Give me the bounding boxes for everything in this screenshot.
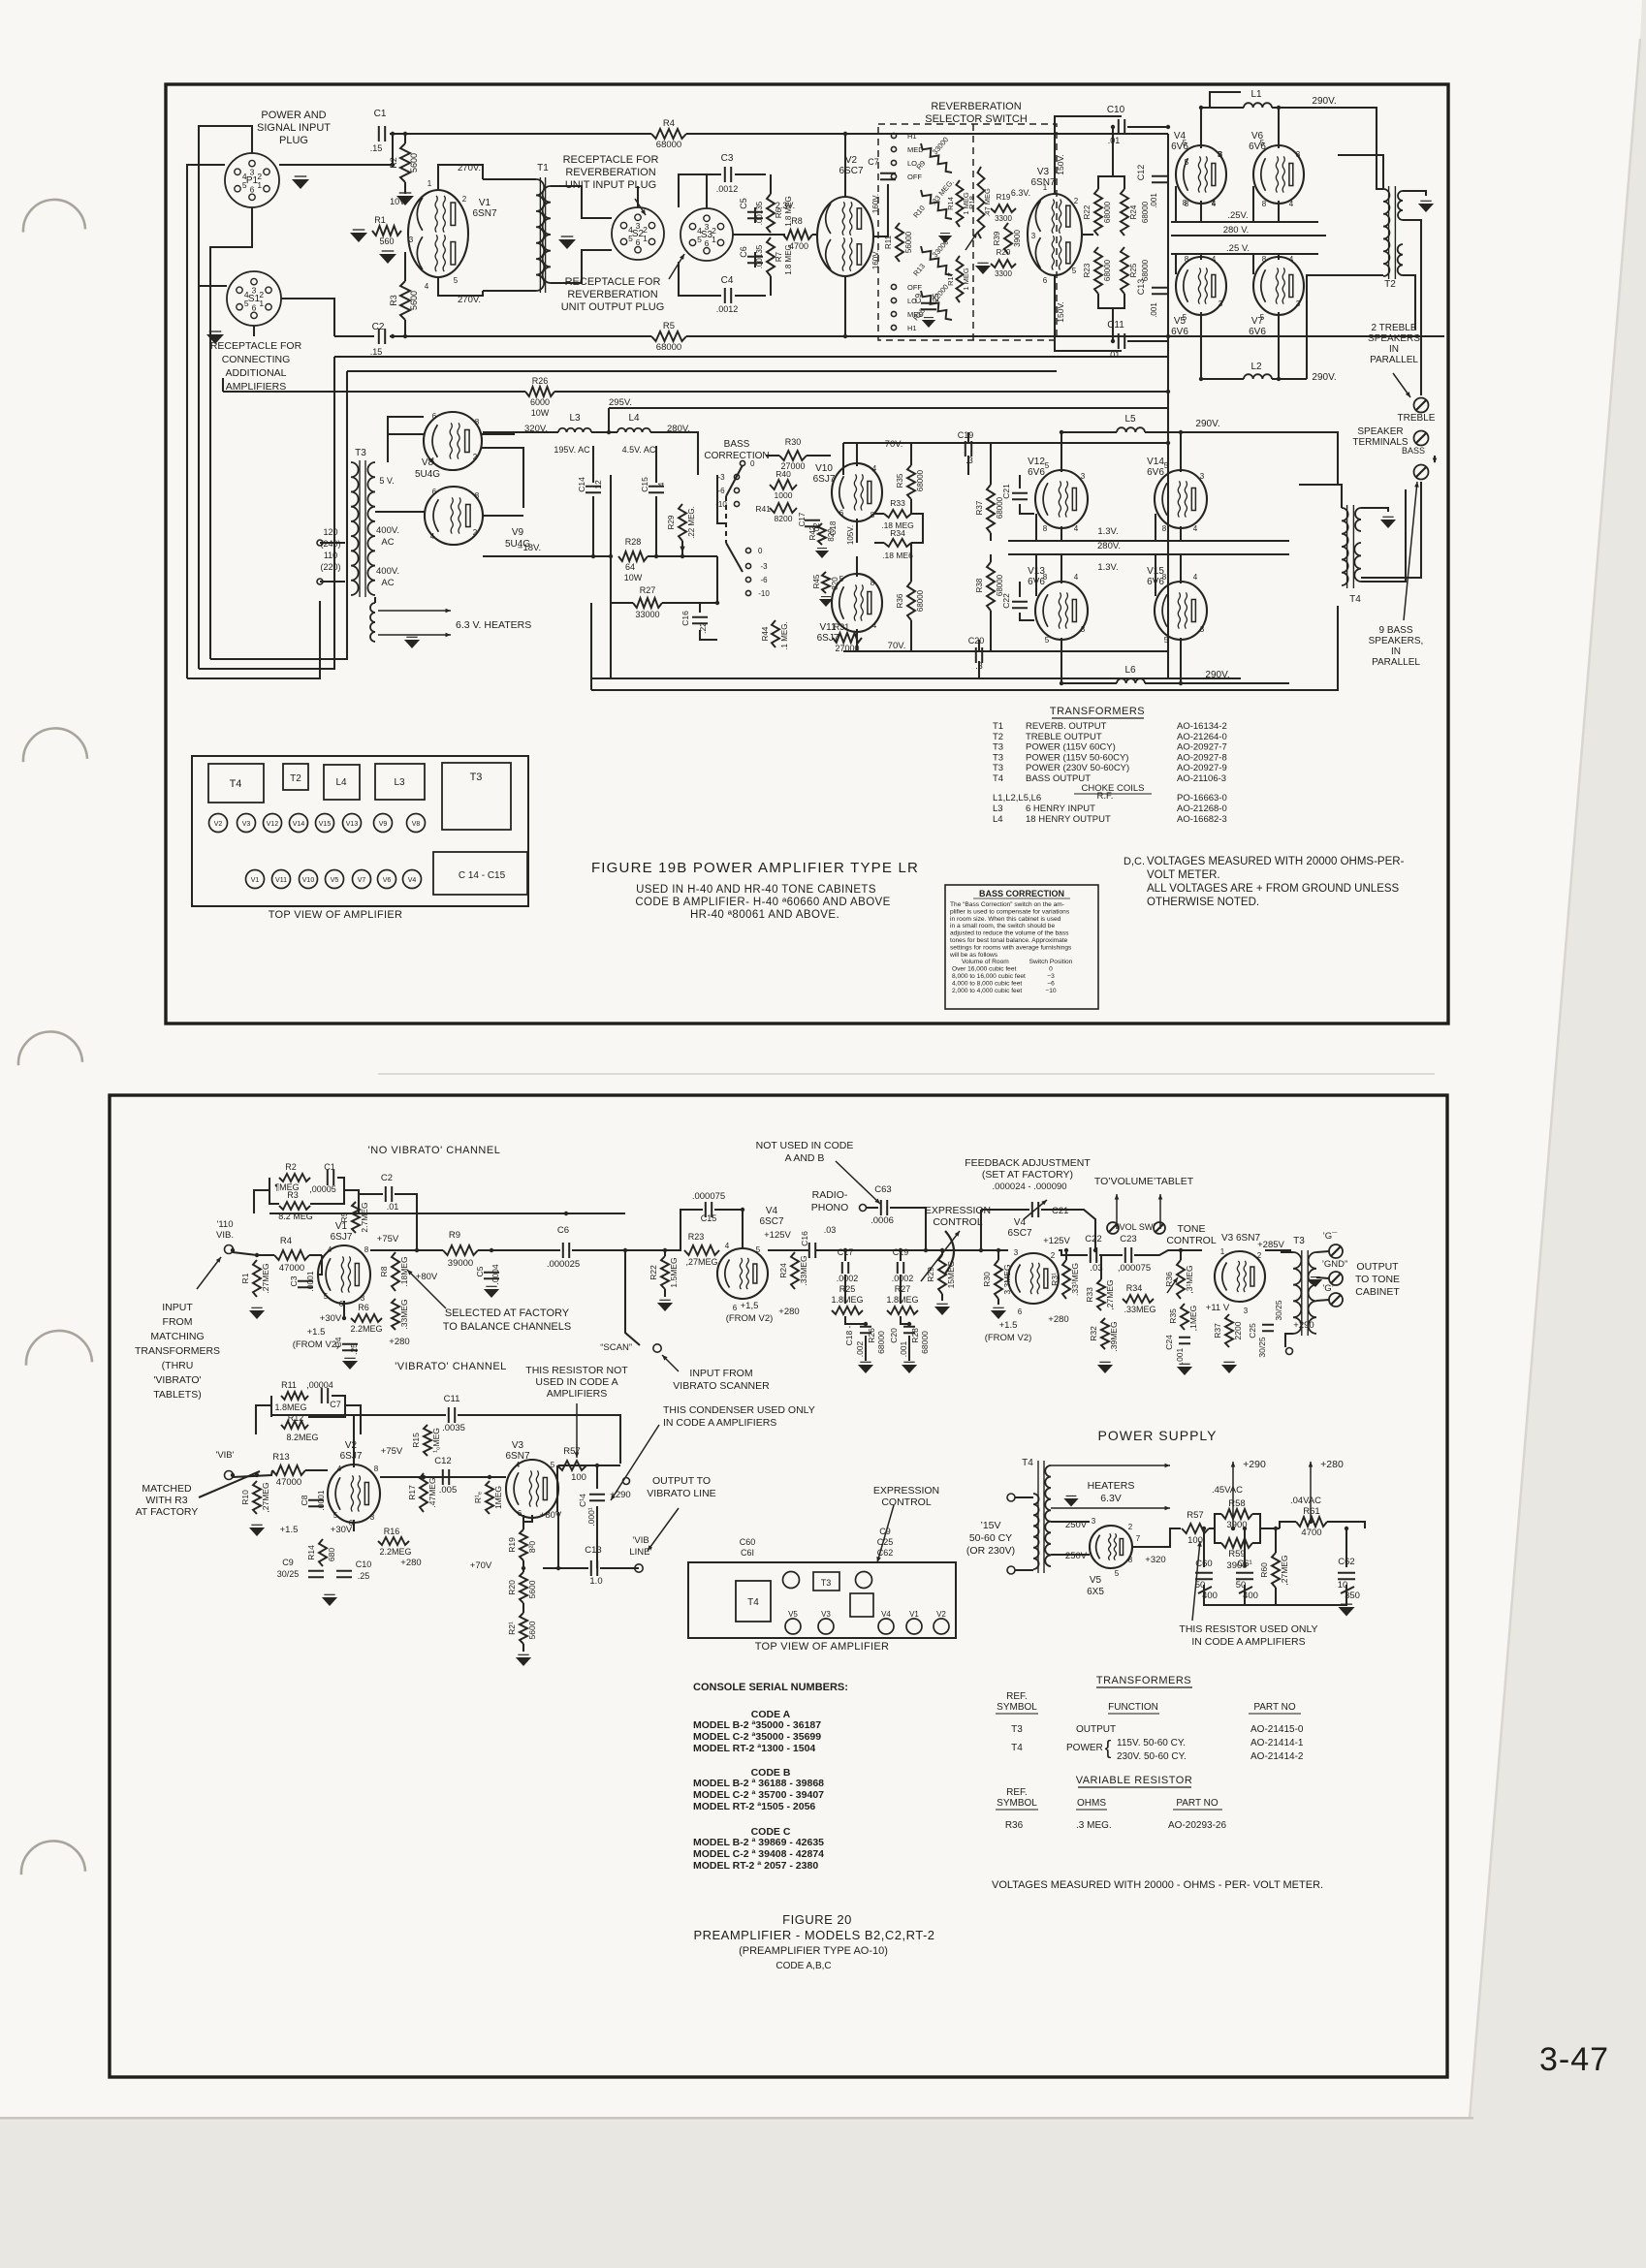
svg-text:'VIBRATO': 'VIBRATO': [153, 1374, 201, 1386]
svg-text:8: 8: [870, 511, 875, 520]
svg-text:.25: .25: [349, 1343, 359, 1355]
label +80V: [416, 1272, 438, 1282]
svg-text:5: 5: [1072, 267, 1077, 275]
svg-text:6: 6: [349, 1519, 354, 1528]
svg-text:3: 3: [1081, 472, 1086, 481]
svg-text:3: 3: [252, 286, 257, 296]
svg-text:5: 5: [697, 235, 702, 244]
label V10: [813, 463, 836, 485]
capacitor C20: [968, 636, 985, 671]
wire T3 to V9: [375, 511, 425, 513]
wire R5 left: [390, 335, 651, 337]
text receptacle for connecting additional amplifiers: [210, 340, 302, 393]
svg-text:T3: T3: [1011, 1724, 1023, 1735]
svg-text:C11: C11: [1107, 320, 1124, 331]
text speaker terminals: [1352, 426, 1409, 448]
transformer T4 sec upper: [1355, 508, 1361, 531]
capacitor C1: [370, 109, 387, 153]
tube V4g 6SC7: [1008, 1253, 1059, 1304]
label V3 6SN7: [1030, 167, 1055, 188]
svg-text:5 V.: 5 V.: [379, 476, 394, 486]
wire C10 right: [1127, 126, 1168, 128]
resistor R24f: [778, 1252, 808, 1289]
svg-text:8: 8: [870, 579, 875, 587]
svg-text:3900: 3900: [1013, 230, 1022, 247]
pins V13: [1043, 573, 1086, 645]
wire S1 loop: [199, 285, 227, 287]
svg-text:’VIB: ’VIB: [632, 1535, 649, 1546]
label 1.3V b: [1097, 562, 1118, 573]
ground under C9b: [922, 318, 935, 328]
resistor R8f: [379, 1252, 409, 1291]
arrow this resistor: [575, 1403, 580, 1458]
svg-text:T4: T4: [230, 778, 242, 790]
label L2: [1250, 362, 1262, 372]
choke L6: [1117, 665, 1145, 683]
svg-text:.0035: .0035: [442, 1423, 465, 1433]
resistor R6: [755, 194, 783, 233]
svg-text:6: 6: [733, 1304, 738, 1312]
svg-text:Volume of Room: Volume of Room: [962, 959, 1009, 965]
svg-text:T4: T4: [1349, 594, 1361, 605]
svg-text:THIS RESISTOR NOT: THIS RESISTOR NOT: [525, 1365, 628, 1376]
svg-text:8: 8: [1043, 524, 1048, 533]
svg-text:L3: L3: [394, 777, 405, 788]
svg-text:R31: R31: [834, 622, 850, 632]
wire P1 pin3 up: [199, 126, 252, 669]
svg-text:R22: R22: [1083, 205, 1092, 219]
svg-text:R20: R20: [997, 248, 1011, 257]
wire T2 down to speakers: [1403, 275, 1415, 330]
text to volume tablet: [1094, 1176, 1194, 1187]
bass switch contacts b: [745, 547, 770, 598]
wire heater vert: [374, 597, 376, 603]
terminal vib: [225, 1471, 234, 1480]
svg-text:R3¹: R3¹: [1050, 1273, 1060, 1286]
terminal +290 f20: [1286, 1320, 1314, 1355]
wire V1f grid: [318, 1255, 322, 1275]
top view of amplifier layout (fig 19B): [192, 756, 528, 921]
transformer T3f secondary: [1309, 1252, 1316, 1334]
svg-text:R18: R18: [967, 196, 976, 209]
svg-text:Over 16,000 cubic feet: Over 16,000 cubic feet: [952, 966, 1017, 973]
ground R32f: [1097, 1362, 1113, 1373]
wire junction dots: [231, 106, 1348, 1570]
ground R1f: [249, 1307, 265, 1319]
variable resistor table: [996, 1775, 1226, 1831]
wire V13 up: [1060, 554, 1062, 583]
label 280V L4: [667, 424, 690, 434]
label V12: [1028, 457, 1045, 478]
pins V3top: [1031, 183, 1079, 285]
label 5V: [379, 476, 394, 486]
svg-text:{: {: [1105, 1738, 1112, 1759]
svg-text:R58: R58: [1228, 1498, 1245, 1509]
svg-text:280V.: 280V.: [1097, 541, 1121, 551]
wire C17 riser: [845, 1250, 866, 1324]
choke L4: [617, 413, 656, 455]
wire T2 top: [1338, 155, 1383, 189]
svg-text:C3: C3: [721, 153, 734, 164]
svg-text:R13: R13: [272, 1452, 289, 1463]
svg-text:C4: C4: [721, 275, 734, 286]
svg-text:'VIBRATO' CHANNEL: 'VIBRATO' CHANNEL: [395, 1361, 507, 1372]
tube V10 6SJ7: [832, 463, 882, 521]
wire C11 span: [380, 1415, 620, 1464]
svg-text:6V6: 6V6: [1249, 327, 1266, 337]
label +290 f20: [1243, 1459, 1266, 1470]
svg-text:2.7MEG: 2.7MEG: [360, 1202, 369, 1232]
transformer T4 core: [1347, 505, 1354, 588]
wire C13f: [543, 1512, 639, 1568]
ground T3f: [1309, 1277, 1322, 1287]
wire V12 cath: [1060, 526, 1062, 541]
svg-text:.33¹MEG: .33¹MEG: [1070, 1263, 1080, 1296]
tube V12 6V6: [1035, 470, 1088, 528]
svg-text:AO-21415-0: AO-21415-0: [1250, 1724, 1304, 1735]
svg-text:6: 6: [839, 509, 844, 518]
svg-text:.33MEG: .33MEG: [799, 1255, 808, 1285]
capacitor C10: [1107, 105, 1125, 145]
svg-text:adjusted to reduce the volume: adjusted to reduce the volume of the bas…: [950, 930, 1069, 937]
svg-text:+290: +290: [1293, 1320, 1314, 1331]
svg-text:R2: R2: [285, 1162, 297, 1172]
wire bus 383: [210, 371, 1057, 659]
svg-text:295V.: 295V.: [609, 397, 632, 408]
resistor R57g: [1182, 1510, 1209, 1546]
svg-text:T4: T4: [993, 773, 1003, 784]
wire nv top bus: [269, 1213, 625, 1214]
label -18V: [518, 543, 541, 553]
svg-text:POWER AND: POWER AND: [261, 110, 326, 121]
text this resistor not: [525, 1365, 628, 1400]
svg-text:TRANSFORMERS: TRANSFORMERS: [135, 1345, 220, 1357]
svg-text:2: 2: [1051, 1251, 1056, 1260]
svg-text:3: 3: [370, 1513, 375, 1522]
ground under V1: [379, 251, 396, 264]
label V8: [415, 457, 440, 480]
text 120 240 110 220: [320, 527, 340, 572]
svg-text:MODEL C-2 ª35000 - 35699: MODEL C-2 ª35000 - 35699: [693, 1731, 821, 1743]
resistor R18 rev: [967, 167, 992, 238]
svg-text:AO-16134-2: AO-16134-2: [1177, 721, 1227, 732]
svg-text:6V6: 6V6: [1147, 467, 1164, 478]
wire T4 gnd: [1361, 508, 1388, 512]
wire R33f top: [1100, 1255, 1102, 1279]
svg-text:.00135: .00135: [755, 244, 764, 268]
svg-text:.000¹: .000¹: [586, 1507, 596, 1527]
svg-text:C5: C5: [739, 198, 748, 209]
svg-text:V2: V2: [214, 821, 223, 828]
capacitor C17v: [798, 512, 821, 533]
svg-text:R44: R44: [761, 626, 770, 641]
svg-text:.25: .25: [358, 1571, 370, 1581]
svg-text:CONSOLE SERIAL NUMBERS:: CONSOLE SERIAL NUMBERS:: [693, 1682, 848, 1693]
svg-text:VOLT METER.: VOLT METER.: [1147, 869, 1220, 881]
text heaters 6.3: [1088, 1480, 1135, 1504]
resistor R4f: [274, 1236, 309, 1274]
svg-text:OUTPUT: OUTPUT: [1076, 1724, 1116, 1735]
transformers table fig20: [996, 1675, 1304, 1762]
label T4f: [1022, 1458, 1033, 1468]
figure 20 caption: [693, 1912, 934, 1971]
wire 295 drop: [608, 408, 610, 432]
capacitor C15f: [701, 1202, 717, 1223]
tube V2f 6SJ7: [328, 1465, 380, 1523]
svg-text:,000075: ,000075: [1118, 1263, 1151, 1274]
svg-text:R35: R35: [896, 473, 904, 488]
svg-text:OFF: OFF: [907, 173, 922, 181]
svg-text:C24: C24: [1164, 1335, 1174, 1350]
wire V10 bus: [717, 475, 726, 523]
svg-text:USED IN H-40 AND HR-40 TONE CA: USED IN H-40 AND HR-40 TONE CABINETS: [636, 884, 876, 896]
tube V3 6SN7: [1028, 194, 1082, 275]
wire V11 plate dn: [856, 629, 858, 651]
capacitor C21x: [1001, 484, 1028, 499]
top view of amplifier layout (fig 20): [688, 1562, 956, 1653]
svg-text:5: 5: [1260, 313, 1265, 322]
svg-text:6V6: 6V6: [1028, 467, 1045, 478]
label 70V a: [885, 439, 903, 450]
ground at S1: [206, 331, 224, 344]
svg-text:.04VAC: .04VAC: [1290, 1496, 1321, 1506]
resistor R27: [633, 585, 662, 619]
svg-text:AC: AC: [381, 537, 394, 548]
svg-text:4: 4: [1193, 573, 1198, 582]
wire V2f plate up: [353, 1415, 355, 1467]
resistor R17f: [407, 1473, 437, 1512]
svg-text:CONTROL: CONTROL: [1166, 1235, 1216, 1246]
capacitor C5: [739, 198, 763, 218]
svg-text:3: 3: [1244, 1307, 1249, 1315]
capacitor C15x: [640, 477, 666, 492]
svg-text:VOLTAGES MEASURED WITH 20000 O: VOLTAGES MEASURED WITH 20000 OHMS-PER-: [1147, 856, 1405, 867]
resistor R12f: [281, 1421, 308, 1429]
svg-text:6: 6: [705, 238, 710, 248]
wire R27 drop: [591, 556, 717, 690]
capacitor C18v: [829, 520, 838, 535]
capacitor C3: [716, 153, 739, 194]
ground under R19: [975, 263, 991, 274]
svg-text:3: 3: [1081, 625, 1086, 634]
wire main line to V4: [625, 1249, 681, 1251]
label 250V a: [1065, 1520, 1088, 1530]
svg-text:.33MEG: .33MEG: [399, 1299, 409, 1329]
label C9 C25 C62: [877, 1527, 894, 1558]
svg-text:+280: +280: [400, 1558, 421, 1568]
svg-text:L1: L1: [1250, 89, 1262, 100]
svg-text:R29: R29: [667, 515, 676, 529]
ground T4 sec: [1380, 517, 1396, 528]
label .000024: [992, 1181, 1066, 1192]
label 280V c: [1097, 541, 1121, 551]
arrow +280 f20: [1309, 1462, 1314, 1522]
svg-text:.18MEG: .18MEG: [399, 1256, 409, 1286]
terminal 110vib: [225, 1245, 234, 1254]
svg-text:(FROM V2): (FROM V2): [985, 1333, 1032, 1343]
svg-text:C9: C9: [282, 1558, 294, 1567]
resistor R40: [770, 469, 797, 500]
capacitor C13x: [1136, 279, 1167, 318]
svg-text:820: 820: [831, 577, 839, 590]
tube V1 6SN7: [408, 190, 468, 277]
svg-text:290V.: 290V.: [1195, 419, 1219, 429]
svg-text:T4: T4: [1022, 1458, 1033, 1468]
svg-text:-6: -6: [717, 487, 725, 495]
svg-text:C15: C15: [640, 477, 649, 492]
ground R42: [815, 549, 829, 558]
svg-text:tones for best tonal balance.: tones for best tonal balance. Approximat…: [950, 937, 1068, 944]
svg-text:2: 2: [1074, 197, 1079, 205]
resistor R16f: [378, 1527, 412, 1557]
svg-text:3: 3: [705, 222, 710, 232]
wire C2f: [359, 1194, 417, 1250]
svg-text:10W: 10W: [531, 408, 550, 418]
svg-text:5: 5: [454, 276, 459, 285]
wire T4f in: [1015, 1497, 1033, 1570]
svg-text:PARALLEL: PARALLEL: [1372, 657, 1420, 668]
svg-text:4: 4: [242, 172, 247, 181]
svg-text:290V.: 290V.: [1312, 96, 1336, 107]
wire C19 link: [967, 432, 969, 475]
label .25V b: [1226, 243, 1250, 254]
svg-text:-10: -10: [758, 589, 770, 598]
svg-text:D,C.: D,C.: [1124, 856, 1145, 867]
svg-text:POWER (115V 50-60CY): POWER (115V 50-60CY): [1026, 752, 1128, 763]
label V4 6V6: [1171, 131, 1188, 152]
wire V6 left pin: [1252, 186, 1254, 222]
svg-text:.001: .001: [1150, 193, 1158, 208]
svg-text:NOT USED IN CODE: NOT USED IN CODE: [756, 1140, 854, 1151]
svg-text:CODE A,B,C: CODE A,B,C: [776, 1961, 831, 1971]
svg-text:R27: R27: [640, 585, 656, 595]
label .000075 a: [692, 1191, 725, 1202]
svg-text:+280: +280: [1320, 1459, 1344, 1470]
capacitor C22x: [1001, 593, 1028, 609]
wire V14 left pin: [1155, 514, 1156, 541]
svg-text:'NO VIBRATO' CHANNEL: 'NO VIBRATO' CHANNEL: [368, 1145, 501, 1156]
figure 19B border: [166, 84, 1448, 1024]
svg-text:.000024 - .000090: .000024 - .000090: [992, 1181, 1066, 1192]
wire S1 right: [281, 299, 334, 336]
ground C4f: [342, 1358, 358, 1370]
label T4: [1349, 594, 1361, 605]
wire C15f: [681, 1210, 743, 1250]
resistor R58f: [1221, 1498, 1252, 1530]
resistor R32f: [1089, 1318, 1119, 1352]
wire R6R7 tie: [770, 174, 772, 296]
svg-text:R9: R9: [449, 1230, 460, 1241]
page number 3-47: [1539, 2041, 1609, 2078]
svg-text:'110: '110: [217, 1219, 234, 1230]
svg-text:OUTPUT: OUTPUT: [1356, 1261, 1399, 1273]
resistor R7: [755, 237, 783, 276]
svg-text:5: 5: [242, 180, 247, 190]
label out G2: [1322, 1283, 1334, 1294]
svg-text:AO-21106-3: AO-21106-3: [1177, 773, 1226, 784]
label 270V top: [458, 163, 481, 173]
wire L6 right ext: [1241, 682, 1289, 684]
transformers parts list: [993, 706, 1227, 825]
svg-text:PREAMPLIFIER - MODELS B2,C2: PREAMPLIFIER - MODELS B2,C2,RT-2: [693, 1928, 934, 1942]
label V4f: [759, 1206, 783, 1227]
pins V4V6: [1183, 150, 1222, 207]
svg-text:AO-20293-26: AO-20293-26: [1168, 1820, 1226, 1831]
choke L5: [1117, 414, 1145, 432]
pins V11: [839, 575, 877, 630]
svg-text:.03: .03: [824, 1225, 837, 1235]
text receptacle reverb output: [561, 276, 665, 313]
svg-text:,3¹MEG: ,3¹MEG: [1185, 1265, 1194, 1293]
resistor R42: [808, 523, 836, 545]
svg-text:V1: V1: [909, 1610, 919, 1619]
svg-text:C5: C5: [475, 1266, 485, 1276]
svg-text:R22: R22: [649, 1265, 658, 1280]
svg-text:+1.5: +1.5: [999, 1320, 1018, 1331]
svg-text:(220): (220): [320, 562, 340, 572]
hole punch 2: [23, 728, 87, 762]
svg-text:MODEL C-2 ª 39408 - 42874: MODEL C-2 ª 39408 - 42874: [693, 1848, 824, 1860]
svg-text:6SC7: 6SC7: [839, 166, 863, 176]
transformer T2 sec lower: [1398, 244, 1403, 275]
svg-text:POWER (230V 50-60CY): POWER (230V 50-60CY): [1026, 763, 1129, 773]
wire P1 to C1 line: [279, 134, 393, 165]
capacitor C5f: [475, 1264, 500, 1285]
resistor R26: [525, 376, 554, 418]
svg-text:R60: R60: [1259, 1562, 1269, 1578]
hole punch 4: [26, 1331, 92, 1366]
svg-text:5: 5: [244, 299, 249, 308]
resistor R31: [833, 622, 862, 653]
wire right rail: [1167, 134, 1169, 678]
svg-text:R11: R11: [281, 1380, 297, 1390]
label +280 a: [389, 1337, 409, 1347]
capacitor C10f: [336, 1559, 371, 1581]
tube V14 6V6: [1155, 470, 1207, 528]
resistor R10f: [240, 1481, 270, 1514]
svg-text:3: 3: [1219, 299, 1223, 308]
svg-text:THIS RESISTOR USED ONLY: THIS RESISTOR USED ONLY: [1179, 1623, 1317, 1635]
label V5 6V6: [1171, 316, 1188, 337]
svg-text:UNIT INPUT PLUG: UNIT INPUT PLUG: [565, 179, 656, 191]
svg-text:R33: R33: [1085, 1287, 1094, 1303]
wire S2 top: [637, 186, 639, 207]
svg-text:SIGNAL INPUT: SIGNAL INPUT: [257, 122, 331, 134]
label 290V L2: [1312, 372, 1336, 383]
label T2: [1384, 279, 1396, 290]
svg-text:T3: T3: [821, 1578, 832, 1588]
svg-text:3: 3: [1296, 299, 1301, 308]
svg-text:'VIB': 'VIB': [216, 1450, 235, 1461]
svg-text:L5: L5: [1124, 414, 1136, 425]
resistor R25x: [1121, 247, 1150, 294]
pins V1: [409, 179, 467, 291]
resistor R8: [783, 216, 812, 251]
svg-text:(OR 230V): (OR 230V): [966, 1545, 1015, 1557]
pins V2 fig20: [324, 1245, 369, 1308]
svg-text:HR-40 ª80061 AND ABOVE.: HR-40 ª80061 AND ABOVE.: [690, 909, 839, 921]
wire V2 cath down: [844, 276, 846, 336]
resistor R27f: [887, 1307, 918, 1314]
svg-text:R61: R61: [1303, 1506, 1319, 1517]
svg-text:V12: V12: [267, 821, 279, 828]
svg-text:R8: R8: [791, 216, 803, 226]
svg-text:AO-21268-0: AO-21268-0: [1177, 803, 1227, 814]
capacitor C11f: [442, 1394, 465, 1433]
svg-text:68000: 68000: [916, 589, 925, 612]
svg-text:SPEAKERS: SPEAKERS: [1368, 333, 1420, 344]
wire V5 out: [1132, 1528, 1181, 1547]
